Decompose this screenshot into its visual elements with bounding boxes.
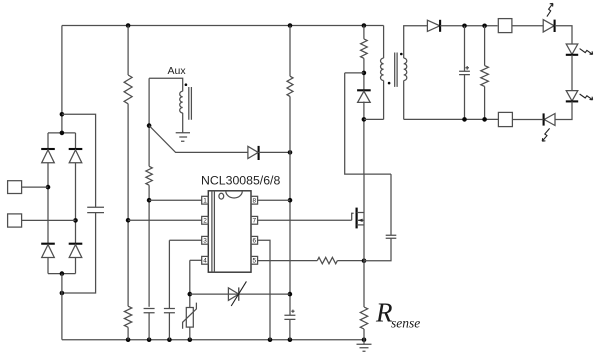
wire bridge left upper xyxy=(47,133,49,149)
node pin1 tap xyxy=(147,198,152,203)
node source-sense junction xyxy=(362,258,367,263)
wire vcc cap bottom xyxy=(289,319,291,339)
node aux diode tap xyxy=(147,123,152,128)
wire bridge top bar xyxy=(48,132,76,134)
wire bridge left lower xyxy=(47,258,49,274)
pin 8 box xyxy=(251,196,258,204)
wire T1 core xyxy=(395,53,397,87)
wire bridge bottom drop xyxy=(61,274,63,340)
diode D6 clamp xyxy=(357,89,371,91)
wire divider middle xyxy=(127,104,129,306)
wire clamp diode bottom xyxy=(363,102,365,175)
node primary phase dot xyxy=(388,82,391,85)
node clamp top xyxy=(362,23,367,28)
wire drain bus left xyxy=(345,73,391,174)
node divider pin2 tap xyxy=(126,218,131,223)
node clamp junction xyxy=(362,71,367,76)
wire output top xyxy=(440,25,497,27)
node output cap top xyxy=(462,24,467,29)
thermistor NTC1 body xyxy=(186,308,193,328)
svg-text:4: 4 xyxy=(203,258,207,265)
wire pin8 lead xyxy=(258,199,290,201)
wire pin5 lead xyxy=(258,260,318,262)
wire startup upper xyxy=(289,26,291,77)
wire divider lower xyxy=(127,327,129,339)
wire LED4 to CN- xyxy=(512,119,543,121)
ground aux xyxy=(176,133,190,142)
op-amp U1 inner lines xyxy=(212,191,215,272)
wire bulk cap bottom xyxy=(62,213,96,293)
svg-text:6: 6 xyxy=(253,238,257,245)
wire pin3 drop xyxy=(168,240,170,308)
svg-text:5: 5 xyxy=(253,258,257,265)
node ground rail at NTC xyxy=(188,337,193,342)
wire LED1 to corner xyxy=(555,26,572,44)
wire LED2 to LED3 xyxy=(571,55,573,91)
capacitor C4 pin3 xyxy=(164,309,175,313)
node divider top xyxy=(126,23,131,28)
inductor T1 secondary xyxy=(404,58,407,80)
pin 2 box xyxy=(202,216,209,224)
node ground rail at C comp xyxy=(167,337,172,342)
wire secondary top lead xyxy=(404,26,428,58)
wire drain-source vertical xyxy=(363,174,365,261)
node AC input L xyxy=(46,185,51,190)
wire aux left vertical xyxy=(148,78,150,166)
inductor T1 primary xyxy=(381,58,384,80)
svg-text:Aux: Aux xyxy=(168,65,187,77)
wire bridge right lower xyxy=(75,258,77,274)
wire C4 bottom xyxy=(168,313,170,340)
capacitor C3 vcc xyxy=(284,315,295,319)
node ground rail at C vcc xyxy=(288,337,293,342)
transistor Q1 drain tap xyxy=(357,212,365,214)
terminal AC N xyxy=(8,214,22,227)
capacitor C6 output plus xyxy=(465,66,469,70)
wire ground rail xyxy=(62,339,364,341)
diode Z1 shunt xyxy=(228,288,238,301)
wire C2 bottom xyxy=(148,313,150,340)
wire divider upper xyxy=(127,26,129,76)
wire aux diode diagonal xyxy=(149,126,248,153)
resistor R3 zcd xyxy=(146,166,152,185)
pin 5 box xyxy=(251,256,258,264)
node ground rail at R lower divider xyxy=(126,337,131,342)
wire AC N lead xyxy=(22,219,76,221)
wire aux core xyxy=(189,87,192,120)
diode LED4 xyxy=(544,114,555,126)
wire primary top lead xyxy=(383,26,385,59)
svg-text:8: 8 xyxy=(253,198,257,205)
node bridge minus tap xyxy=(60,291,65,296)
wire pin3 lead xyxy=(169,239,201,241)
inductor aux winding xyxy=(180,91,183,113)
node aux phase dot xyxy=(185,83,188,86)
wire sd line xyxy=(190,293,290,295)
svg-text:3: 3 xyxy=(203,238,207,245)
diode D7 output xyxy=(427,20,439,31)
wire zcd to pin1 xyxy=(148,185,150,307)
pin 6 box xyxy=(251,236,258,244)
wire pin4 drop xyxy=(189,260,191,307)
resistor Rsense xyxy=(360,307,367,329)
wire output bottom xyxy=(404,118,499,120)
svg-text:1: 1 xyxy=(203,198,207,205)
node load resistor top xyxy=(482,24,487,29)
diode LED1 xyxy=(543,20,554,32)
wire sense upper xyxy=(363,261,365,307)
pin 7 box xyxy=(251,216,258,224)
op-amp U1 notch xyxy=(226,191,243,198)
wire aux diode to vcc line xyxy=(259,151,290,153)
node ground rail at Rsense xyxy=(362,337,367,342)
diode bridge D1 xyxy=(41,148,55,150)
node load resistor bottom xyxy=(482,117,487,122)
wire clamp upper xyxy=(363,26,365,39)
terminal CN+ out xyxy=(498,19,512,33)
svg-text:sense: sense xyxy=(391,316,420,331)
diode LED2 xyxy=(566,44,578,54)
pin 3 box xyxy=(202,236,209,244)
capacitor C2 pin1 filter xyxy=(144,309,155,313)
wire NTC bottom xyxy=(189,327,191,340)
resistor R1 upper divider xyxy=(124,75,132,104)
wire to LED string top xyxy=(512,25,543,27)
wire pin7 gate lead xyxy=(258,219,352,221)
diode LED2 arrow xyxy=(580,49,593,55)
wire snubber cap drop xyxy=(390,174,392,235)
node secondary phase dot xyxy=(400,53,403,56)
wire sense lower xyxy=(363,329,365,344)
resistor R7 load xyxy=(481,66,489,87)
wire bridge right middle xyxy=(75,163,77,244)
node ground rail at pin6 return xyxy=(268,337,273,342)
node AC input N xyxy=(73,218,78,223)
wire secondary bottom lead xyxy=(403,81,405,120)
resistor R6 clamp xyxy=(361,39,368,58)
transistor Q1 channel xyxy=(356,208,358,229)
resistor R2 lower divider xyxy=(124,306,131,327)
node output cap bottom xyxy=(462,117,467,122)
node bulk cap top tap xyxy=(60,112,65,117)
capacitor C6 output xyxy=(459,71,470,74)
capacitor C3 vcc plus xyxy=(291,310,294,313)
diode bridge D3 xyxy=(41,243,55,245)
diode D5 vcc rectifier xyxy=(258,146,260,160)
wire primary bottom lead xyxy=(383,81,385,120)
svg-text:NCL30085/6/8: NCL30085/6/8 xyxy=(201,173,280,187)
op-amp U1 pin1 circle xyxy=(219,193,224,199)
pin 1 box xyxy=(202,196,209,204)
wire bridge right upper xyxy=(75,133,77,149)
wire bridge left middle xyxy=(47,163,49,244)
node pin4 sd junction xyxy=(188,292,193,297)
wire to bulk cap top xyxy=(62,114,96,207)
node primary bottom xyxy=(362,117,367,122)
wire pin2 lead xyxy=(128,219,202,221)
transistor Q1 arrow line xyxy=(358,219,364,221)
node vcc line diode junction xyxy=(288,150,293,155)
wire bridge bottom bar xyxy=(48,273,76,275)
resistor R5 gate-cs xyxy=(317,257,337,263)
wire aux loop top xyxy=(149,78,183,91)
wire clamp mid xyxy=(363,58,365,89)
thermistor NTC1 stroke xyxy=(183,303,197,329)
resistor R4 startup xyxy=(287,76,293,96)
node vcc cap tap xyxy=(288,292,293,297)
transistor Q1 gate hook xyxy=(352,213,354,220)
capacitor bulk C1 xyxy=(87,207,104,212)
wire Cout upper xyxy=(464,26,466,71)
wire primary bottom link xyxy=(364,118,384,120)
terminal CN- out xyxy=(498,112,512,126)
wire clamp left branch xyxy=(345,72,364,74)
wire Rload upper xyxy=(484,26,486,66)
transistor Q1 arrow head xyxy=(358,219,363,222)
wire cs to source node xyxy=(337,260,364,262)
node ground rail at C vcc filter xyxy=(147,337,152,342)
node startup top xyxy=(288,23,293,28)
svg-text:2: 2 xyxy=(203,218,207,225)
diode LED1 arrow xyxy=(547,3,553,16)
node pin8 vcc tap xyxy=(288,198,293,203)
svg-text:7: 7 xyxy=(253,218,257,225)
wire vcc vertical xyxy=(289,96,291,315)
wire pin1 lead xyxy=(149,199,202,201)
wire top bulk rail xyxy=(62,25,384,27)
wire AC L lead xyxy=(22,186,48,188)
wire left input drop xyxy=(61,26,63,133)
wire Rload lower xyxy=(484,86,486,119)
terminal AC L xyxy=(8,181,22,194)
diode LED4 arrow xyxy=(542,128,549,141)
diode LED3 arrow xyxy=(580,94,593,100)
transistor Q1 body tap xyxy=(357,224,365,226)
diode LED3 xyxy=(566,91,578,101)
node bridge bottom xyxy=(60,271,65,276)
op-amp U1 NCL30085 body xyxy=(208,191,251,272)
wire LED3 to corner xyxy=(555,101,572,119)
diode bridge D2 xyxy=(69,148,83,150)
pin 4 box xyxy=(202,256,209,264)
wire Cout lower xyxy=(464,75,466,120)
wire snubber cap bottom xyxy=(364,238,391,260)
node bridge top xyxy=(60,131,65,136)
capacitor C5 snubber xyxy=(386,235,397,238)
diode bridge D4 xyxy=(69,243,83,245)
ground main xyxy=(357,344,372,351)
wire aux to ground xyxy=(182,113,184,133)
wire pin6 lead xyxy=(258,240,270,339)
wire pin4 lead xyxy=(190,259,202,261)
